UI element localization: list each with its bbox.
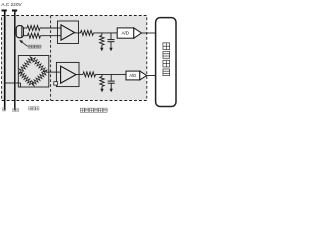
resistor R1 bbox=[27, 26, 40, 31]
display module box bbox=[156, 18, 176, 107]
capacitor C2 to ground arrow bbox=[110, 74, 112, 80]
wire (live supply to bridge bottom) bbox=[5, 82, 21, 84]
wire bbox=[23, 27, 27, 29]
capacitor C1 to ground arrow bbox=[110, 33, 112, 39]
resistor R10 bbox=[83, 72, 95, 77]
AC neutral wire bbox=[14, 10, 16, 110]
resistor R2 bbox=[28, 33, 41, 38]
regulator tube component bbox=[16, 26, 23, 38]
compartment divider (sensor | processing) bbox=[50, 16, 52, 101]
label: sensor (3 CJK chars, greeked) bbox=[29, 107, 32, 110]
wire (stub down to bridge frame) bbox=[20, 83, 22, 87]
svg-text:A/D: A/D bbox=[129, 73, 136, 78]
AC terminal tick N bbox=[12, 10, 17, 12]
A/D converter U4 bbox=[126, 71, 140, 80]
wire bbox=[23, 35, 27, 37]
wire (bridge right node to U3) bbox=[46, 71, 61, 73]
bridge resistor arm R5 (top-left) bbox=[19, 57, 32, 73]
wire bbox=[94, 32, 118, 34]
pointer arrow bbox=[20, 41, 27, 47]
AC live wire bbox=[4, 10, 6, 110]
wire bbox=[147, 75, 156, 77]
wire bbox=[96, 73, 127, 75]
ground arrow (C2) bbox=[110, 89, 113, 93]
label: display module (4 CJK chars vertical, greeked) bbox=[163, 43, 170, 50]
label: signal processing circuit (6 CJK chars, greeked) bbox=[80, 108, 84, 112]
resistor R11 to ground arrow bbox=[101, 74, 103, 76]
svg-text:A/D: A/D bbox=[121, 31, 129, 36]
ground arrow (R4) bbox=[100, 48, 103, 52]
ground arrow (R11) bbox=[100, 89, 103, 93]
op-amp U3 enclosure box bbox=[56, 62, 79, 86]
resistor R4 to ground arrow bbox=[101, 33, 103, 36]
label: live wire (greeked) bbox=[2, 108, 5, 111]
wire bbox=[41, 35, 58, 37]
resistor R3 bbox=[81, 30, 94, 35]
op-amp U1 bbox=[61, 25, 75, 40]
wire bbox=[75, 32, 81, 34]
op-amp U1 enclosure box bbox=[58, 21, 79, 44]
A/D converter U2 bbox=[117, 28, 134, 38]
wire bbox=[76, 74, 83, 76]
op-amp U3 bbox=[61, 66, 76, 83]
bridge resistor arm R8 (bottom-right) bbox=[32, 71, 46, 86]
svg-text:A.C 220V: A.C 220V bbox=[1, 2, 22, 8]
AC terminal tick L bbox=[2, 10, 7, 12]
label: neutral wire (greeked 2 chars) bbox=[13, 109, 16, 112]
wire bbox=[40, 27, 58, 29]
wire (U1 + input stub) bbox=[58, 27, 62, 29]
wire (U1 - input stub) bbox=[58, 35, 62, 37]
offset resistor R9 (small box) bbox=[54, 82, 58, 85]
sensor bridge box bbox=[18, 56, 49, 88]
bridge resistor arm R6 (top-right) bbox=[31, 58, 47, 72]
ground arrow (C1) bbox=[109, 48, 112, 52]
wire bbox=[142, 32, 156, 34]
label: component name (4 CJK chars, greeked) bbox=[28, 45, 31, 48]
signal-processing dashed enclosure bbox=[2, 16, 147, 101]
bridge resistor arm R7 (bottom-left) bbox=[18, 72, 33, 85]
